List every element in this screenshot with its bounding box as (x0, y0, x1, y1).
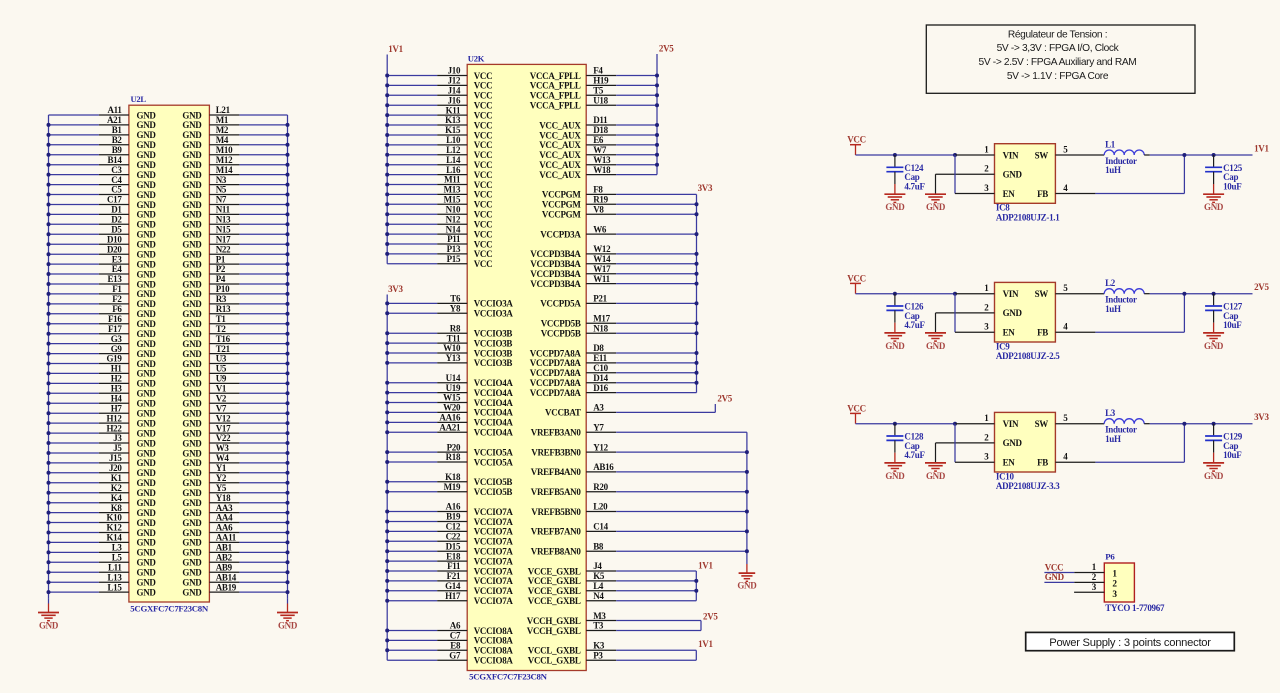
svg-text:L12: L12 (446, 145, 461, 155)
pin 5 SW (1055, 154, 1104, 156)
svg-text:L20: L20 (593, 502, 608, 512)
svg-text:VCCPGM: VCCPGM (542, 200, 581, 210)
svg-text:GND: GND (182, 418, 202, 428)
svg-text:M12: M12 (216, 155, 233, 165)
svg-text:VCCIO4A: VCCIO4A (474, 408, 514, 418)
svg-text:N3: N3 (216, 175, 227, 185)
svg-text:GND: GND (137, 428, 157, 438)
svg-text:T3: T3 (593, 621, 604, 631)
svg-text:VCCIO7A: VCCIO7A (474, 586, 514, 596)
svg-text:GND: GND (182, 140, 202, 150)
svg-text:GND: GND (278, 621, 298, 631)
svg-text:R13: R13 (216, 304, 231, 314)
wire inductor to output (1150, 154, 1253, 156)
svg-text:GND: GND (1003, 438, 1023, 448)
capacitor C125 (1213, 155, 1215, 167)
svg-text:Power Supply : 3 points connec: Power Supply : 3 points connector (1049, 637, 1211, 649)
svg-text:GND: GND (182, 498, 202, 508)
svg-text:D18: D18 (593, 125, 608, 135)
svg-text:C22: C22 (446, 532, 461, 542)
svg-text:H17: H17 (445, 591, 461, 601)
svg-text:GND: GND (182, 329, 202, 339)
svg-text:GND: GND (137, 389, 157, 399)
svg-text:AB2: AB2 (216, 553, 233, 563)
ground under C129 (1213, 453, 1215, 463)
pin 1 VIN (955, 293, 995, 295)
svg-text:VCCIO3B: VCCIO3B (474, 338, 513, 348)
svg-text:VCC: VCC (847, 135, 866, 145)
svg-text:W7: W7 (593, 145, 607, 155)
svg-text:Y8: Y8 (450, 304, 461, 314)
svg-text:GND: GND (137, 587, 157, 597)
svg-text:L4: L4 (593, 581, 604, 591)
svg-text:AA6: AA6 (216, 523, 233, 533)
svg-text:1V1: 1V1 (698, 639, 713, 649)
svg-text:GND: GND (182, 369, 202, 379)
svg-text:VCC: VCC (474, 190, 493, 200)
svg-text:E8: E8 (450, 641, 461, 651)
op-amp IC9 body (995, 282, 1056, 342)
junction at EN tap (953, 422, 957, 426)
svg-text:10uF: 10uF (1223, 450, 1242, 460)
svg-text:VCC: VCC (474, 210, 493, 220)
U2K right pin wires (586, 75, 616, 77)
svg-text:2V5: 2V5 (703, 612, 718, 622)
svg-text:VCCE_GXBL: VCCE_GXBL (528, 586, 581, 596)
ground symbol VREF (746, 564, 748, 573)
U2K right 3V3 bus junctions (695, 202, 699, 206)
svg-text:P13: P13 (447, 244, 461, 254)
svg-text:VCCIO4A: VCCIO4A (474, 398, 514, 408)
svg-text:GND: GND (137, 180, 157, 190)
svg-text:GND: GND (137, 250, 157, 260)
svg-text:M11: M11 (444, 175, 461, 185)
svg-text:Y2: Y2 (216, 473, 227, 483)
svg-text:P21: P21 (593, 294, 607, 304)
IC U2L body (129, 105, 210, 602)
svg-text:R3: R3 (216, 294, 227, 304)
svg-text:W13: W13 (593, 155, 611, 165)
svg-text:T16: T16 (216, 334, 231, 344)
P6 pin 1 wire (1044, 572, 1074, 574)
svg-text:AA21: AA21 (439, 423, 461, 433)
svg-text:GND: GND (137, 160, 157, 170)
svg-text:GND: GND (137, 369, 157, 379)
pin 5 SW (1055, 423, 1104, 425)
svg-text:GND: GND (182, 220, 202, 230)
svg-text:VCCPD7A8A: VCCPD7A8A (530, 358, 582, 368)
svg-text:V8: V8 (593, 204, 604, 214)
svg-text:VCCIO3A: VCCIO3A (474, 309, 514, 319)
svg-text:2V5: 2V5 (717, 393, 732, 403)
svg-text:K5: K5 (593, 571, 605, 581)
svg-text:L15: L15 (107, 582, 122, 592)
svg-text:GND: GND (137, 289, 157, 299)
svg-text:GND: GND (182, 508, 202, 518)
svg-text:E18: E18 (446, 551, 461, 561)
svg-text:K13: K13 (445, 115, 461, 125)
svg-text:L16: L16 (446, 165, 461, 175)
svg-text:AB19: AB19 (216, 582, 237, 592)
svg-text:U3: U3 (216, 354, 227, 364)
svg-text:K10: K10 (106, 513, 122, 523)
svg-text:VCCIO8A: VCCIO8A (474, 646, 514, 656)
svg-text:C3: C3 (111, 165, 122, 175)
svg-text:GND: GND (182, 528, 202, 538)
wire FB feedback (1095, 461, 1184, 463)
wire VCC rail (856, 154, 956, 156)
svg-text:Y5: Y5 (216, 483, 227, 493)
svg-text:VCC: VCC (474, 110, 493, 120)
svg-text:Y18: Y18 (216, 493, 231, 503)
op-amp IC10 body (995, 412, 1056, 472)
svg-text:VCCIO7A: VCCIO7A (474, 527, 514, 537)
svg-text:GND: GND (182, 468, 202, 478)
pin 3 EN (954, 155, 956, 194)
svg-text:V7: V7 (216, 403, 227, 413)
svg-text:W12: W12 (593, 244, 611, 254)
svg-text:R20: R20 (593, 482, 608, 492)
svg-text:1: 1 (1112, 570, 1117, 580)
svg-text:VCC: VCC (474, 200, 493, 210)
svg-text:VCC: VCC (474, 130, 493, 140)
svg-text:VCCPD3B4A: VCCPD3B4A (530, 259, 581, 269)
svg-text:J5: J5 (113, 443, 122, 453)
svg-text:K11: K11 (446, 105, 461, 115)
svg-text:H3: H3 (111, 384, 123, 394)
svg-text:GND: GND (137, 418, 157, 428)
svg-text:GND: GND (926, 202, 946, 212)
VCCBAT 2V5 stub wire (714, 404, 716, 412)
svg-text:GND: GND (182, 120, 202, 130)
svg-text:AA4: AA4 (216, 513, 233, 523)
svg-text:GND: GND (137, 339, 157, 349)
svg-text:VCCIO4A: VCCIO4A (474, 418, 514, 428)
svg-text:VCC: VCC (847, 403, 866, 413)
svg-text:5CGXFC7C7F23C8N: 5CGXFC7C7F23C8N (130, 604, 209, 614)
svg-text:GND: GND (137, 150, 157, 160)
svg-text:VCCIO8A: VCCIO8A (474, 626, 514, 636)
svg-text:GND: GND (1003, 308, 1023, 318)
svg-text:VCCA_FPLL: VCCA_FPLL (530, 71, 581, 81)
svg-text:G19: G19 (106, 354, 122, 364)
svg-text:VCC: VCC (474, 170, 493, 180)
op-amp IC8 body (995, 144, 1056, 204)
svg-text:P10: P10 (216, 284, 230, 294)
svg-text:K18: K18 (445, 472, 461, 482)
note box: Power Supply (1026, 632, 1235, 650)
pin 4 FB (1055, 193, 1095, 195)
svg-text:4.7uF: 4.7uF (904, 320, 925, 330)
svg-text:VREFB3BN0: VREFB3BN0 (531, 447, 581, 457)
junction at EN tap (953, 292, 957, 296)
svg-text:N13: N13 (216, 215, 231, 225)
svg-text:AA3: AA3 (216, 503, 233, 513)
svg-text:C7: C7 (450, 631, 461, 641)
svg-text:A3: A3 (593, 403, 604, 413)
junction output cap (1212, 422, 1216, 426)
svg-text:T1: T1 (216, 314, 227, 324)
svg-text:GND: GND (182, 558, 202, 568)
svg-text:GND: GND (182, 130, 202, 140)
svg-text:V22: V22 (216, 433, 231, 443)
svg-text:GND: GND (137, 240, 157, 250)
svg-text:GND: GND (182, 438, 202, 448)
svg-text:GND: GND (137, 438, 157, 448)
svg-text:3V3: 3V3 (698, 183, 713, 193)
svg-text:IC10: IC10 (996, 471, 1015, 481)
svg-text:VCCE_GXBL: VCCE_GXBL (528, 566, 581, 576)
svg-text:VCC: VCC (474, 101, 493, 111)
svg-text:GND: GND (1204, 341, 1224, 351)
svg-text:VCCE_GXBL: VCCE_GXBL (528, 596, 581, 606)
svg-text:P1: P1 (216, 254, 226, 264)
svg-text:C14: C14 (593, 522, 608, 532)
svg-text:N7: N7 (216, 195, 227, 205)
svg-text:VCCA_FPLL: VCCA_FPLL (530, 81, 581, 91)
svg-text:N14: N14 (446, 224, 461, 234)
U2L left GND bus wire (48, 115, 50, 598)
svg-text:U14: U14 (446, 373, 461, 383)
svg-text:GND: GND (182, 379, 202, 389)
svg-text:GND: GND (137, 468, 157, 478)
svg-text:W14: W14 (593, 254, 611, 264)
svg-text:GND: GND (137, 120, 157, 130)
svg-text:F11: F11 (447, 561, 461, 571)
svg-text:5V -> 3,3V : FPGA I/O, Clock: 5V -> 3,3V : FPGA I/O, Clock (997, 43, 1120, 54)
svg-text:VCCPD7A8A: VCCPD7A8A (530, 378, 582, 388)
pin 4 FB (1055, 461, 1095, 463)
svg-text:L5: L5 (112, 553, 123, 563)
svg-text:VIN: VIN (1003, 150, 1019, 160)
svg-text:P2: P2 (216, 264, 226, 274)
svg-text:Y13: Y13 (446, 353, 461, 363)
inductor L1 1uH (1104, 150, 1144, 155)
capacitor C124 (894, 155, 896, 167)
svg-text:B14: B14 (107, 155, 122, 165)
svg-text:F16: F16 (108, 314, 122, 324)
svg-text:VCC: VCC (474, 140, 493, 150)
svg-text:VCCH_GXBL: VCCH_GXBL (527, 626, 581, 636)
wire FB feedback (1095, 331, 1184, 333)
svg-text:U18: U18 (593, 95, 608, 105)
svg-text:U5: U5 (216, 364, 227, 374)
U2K 2V5 bus junctions (655, 74, 659, 78)
svg-text:IC8: IC8 (996, 203, 1010, 213)
U2K VREF bus wire (746, 432, 748, 564)
svg-text:VCC: VCC (474, 120, 493, 130)
svg-text:GND: GND (137, 518, 157, 528)
svg-text:AB16: AB16 (593, 462, 614, 472)
svg-text:Régulateur de Tension :: Régulateur de Tension : (1008, 29, 1107, 40)
svg-text:GND: GND (182, 448, 202, 458)
svg-text:L10: L10 (446, 135, 461, 145)
svg-text:VCCBAT: VCCBAT (545, 408, 581, 418)
svg-text:M1: M1 (216, 115, 229, 125)
svg-text:L1: L1 (1105, 139, 1116, 149)
svg-text:J16: J16 (448, 95, 461, 105)
svg-text:VCCH_GXBL: VCCH_GXBL (527, 616, 581, 626)
svg-text:K15: K15 (445, 125, 461, 135)
svg-text:A6: A6 (450, 621, 461, 631)
svg-text:VCCE_GXBL: VCCE_GXBL (528, 576, 581, 586)
P6 pin 2 wire (1044, 581, 1074, 583)
svg-text:H1: H1 (111, 364, 123, 374)
svg-text:VCC: VCC (474, 150, 493, 160)
wire inductor to output (1150, 423, 1253, 425)
svg-text:B8: B8 (593, 541, 604, 551)
svg-text:GND: GND (137, 279, 157, 289)
svg-text:F4: F4 (593, 66, 603, 76)
svg-text:M3: M3 (593, 611, 606, 621)
wire VCC rail (856, 423, 956, 425)
svg-text:GND: GND (182, 428, 202, 438)
svg-text:G7: G7 (449, 650, 461, 660)
svg-text:VCCIO7A: VCCIO7A (474, 537, 514, 547)
inductor L2 1uH (1104, 289, 1144, 294)
svg-text:GND: GND (137, 498, 157, 508)
svg-text:F6: F6 (112, 304, 122, 314)
svg-text:VCCPD3B4A: VCCPD3B4A (530, 279, 581, 289)
svg-text:GND: GND (137, 409, 157, 419)
svg-text:P6: P6 (1105, 551, 1115, 561)
svg-text:GND: GND (182, 349, 202, 359)
svg-text:VREFB7AN0: VREFB7AN0 (531, 527, 582, 537)
wire inductor to output (1150, 293, 1253, 295)
svg-text:VCCPD5B: VCCPD5B (541, 329, 581, 339)
svg-text:W6: W6 (593, 224, 607, 234)
svg-text:K4: K4 (111, 493, 123, 503)
svg-text:GND: GND (182, 299, 202, 309)
svg-text:H2: H2 (111, 374, 123, 384)
svg-text:ADP2108UJZ-2.5: ADP2108UJZ-2.5 (996, 351, 1060, 361)
svg-text:GND: GND (137, 448, 157, 458)
svg-text:VCCIO5A: VCCIO5A (474, 447, 514, 457)
svg-text:J10: J10 (448, 66, 461, 76)
pin 2 GND (936, 173, 995, 175)
junction FB/output (1182, 422, 1186, 426)
svg-text:M15: M15 (444, 195, 461, 205)
svg-text:1V1: 1V1 (1254, 144, 1269, 154)
svg-text:SW: SW (1035, 150, 1049, 160)
svg-text:D20: D20 (107, 244, 122, 254)
svg-text:VCC_AUX: VCC_AUX (539, 120, 581, 130)
ground under C125 (1213, 184, 1215, 194)
svg-text:GND: GND (737, 581, 757, 591)
svg-text:G9: G9 (111, 344, 123, 354)
svg-text:AA16: AA16 (439, 413, 461, 423)
U2K VCCIO 3V3 bus wire (386, 295, 388, 661)
svg-text:J20: J20 (109, 463, 122, 473)
svg-text:K3: K3 (593, 641, 605, 651)
svg-text:GND: GND (182, 319, 202, 329)
svg-text:W4: W4 (216, 453, 230, 463)
svg-text:W17: W17 (593, 264, 611, 274)
svg-text:ADP2108UJZ-3.3: ADP2108UJZ-3.3 (996, 481, 1060, 491)
svg-text:N5: N5 (216, 185, 227, 195)
svg-text:GND: GND (137, 528, 157, 538)
svg-text:GND: GND (182, 568, 202, 578)
svg-text:L2: L2 (1105, 278, 1116, 288)
svg-text:D16: D16 (593, 383, 608, 393)
svg-text:GND: GND (182, 548, 202, 558)
svg-text:GND: GND (137, 220, 157, 230)
U2L pin wires left/right (49, 114, 99, 116)
svg-text:VCC_AUX: VCC_AUX (539, 170, 581, 180)
svg-text:VCCIO8A: VCCIO8A (474, 656, 514, 666)
svg-text:GND: GND (182, 279, 202, 289)
svg-text:G3: G3 (111, 334, 123, 344)
svg-text:M4: M4 (216, 135, 229, 145)
svg-text:GND: GND (137, 359, 157, 369)
svg-text:GND: GND (137, 269, 157, 279)
ground under C126 (894, 323, 896, 333)
svg-text:VCC: VCC (474, 160, 493, 170)
VCCL_GXBL bus wire (695, 650, 697, 660)
svg-text:VCCIO3B: VCCIO3B (474, 329, 513, 339)
svg-text:GND: GND (137, 568, 157, 578)
svg-text:K12: K12 (106, 523, 122, 533)
svg-text:VCCPD7A8A: VCCPD7A8A (530, 348, 582, 358)
svg-text:F1: F1 (112, 284, 122, 294)
svg-text:GND: GND (182, 538, 202, 548)
svg-text:A21: A21 (107, 115, 122, 125)
svg-text:P11: P11 (447, 234, 461, 244)
svg-text:U9: U9 (216, 374, 227, 384)
svg-text:VCCPD7A8A: VCCPD7A8A (530, 368, 582, 378)
svg-text:GND: GND (1204, 202, 1224, 212)
svg-text:GND: GND (137, 558, 157, 568)
svg-text:GND: GND (137, 309, 157, 319)
svg-text:VCCIO5B: VCCIO5B (474, 487, 513, 497)
svg-text:D1: D1 (111, 205, 122, 215)
svg-text:GND: GND (137, 399, 157, 409)
ground under C127 (1213, 323, 1215, 333)
svg-text:SW: SW (1035, 289, 1049, 299)
svg-text:1V1: 1V1 (388, 44, 403, 54)
svg-text:VCCIO3B: VCCIO3B (474, 348, 513, 358)
svg-text:C17: C17 (107, 195, 122, 205)
svg-text:GND: GND (182, 150, 202, 160)
svg-text:E4: E4 (112, 264, 123, 274)
svg-text:GND: GND (137, 170, 157, 180)
junction FB/output (1182, 153, 1186, 157)
svg-text:U19: U19 (446, 383, 461, 393)
pin 3 EN (954, 424, 956, 463)
svg-text:Y1: Y1 (216, 463, 227, 473)
svg-text:M17: M17 (593, 313, 610, 323)
svg-text:N4: N4 (593, 591, 604, 601)
svg-text:IC9: IC9 (996, 341, 1010, 351)
svg-text:3V3: 3V3 (1254, 412, 1269, 422)
svg-text:P15: P15 (447, 254, 461, 264)
svg-text:G14: G14 (445, 581, 461, 591)
pin 5 SW (1055, 293, 1104, 295)
svg-text:GND: GND (182, 478, 202, 488)
ground symbol right of U2L (287, 598, 289, 603)
svg-text:H12: H12 (106, 413, 122, 423)
svg-text:GND: GND (137, 190, 157, 200)
svg-text:1uH: 1uH (1105, 304, 1121, 314)
svg-text:D10: D10 (107, 234, 122, 244)
svg-text:VCC: VCC (847, 273, 866, 283)
svg-text:T6: T6 (450, 294, 461, 304)
svg-text:GND: GND (39, 621, 59, 631)
svg-text:W15: W15 (443, 393, 461, 403)
svg-text:R8: R8 (450, 323, 461, 333)
svg-text:VIN: VIN (1003, 419, 1019, 429)
svg-text:AB14: AB14 (216, 572, 237, 582)
